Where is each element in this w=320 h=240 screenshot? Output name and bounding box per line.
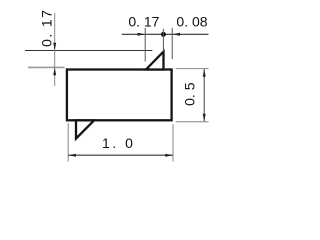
dimension line vertical right (0.5) <box>203 69 205 121</box>
extension line vertical bottom-right <box>172 124 174 162</box>
dimension line horizontal bottom (1.0) <box>68 154 173 156</box>
svg-text:0. 08: 0. 08 <box>176 13 207 29</box>
bottom dim arrow left <box>68 154 76 157</box>
right dim arrow down <box>203 114 206 122</box>
bottom dim arrow right <box>165 154 173 157</box>
extension line: right top horizontal <box>176 68 209 70</box>
extension line vertical C (body right edge) <box>171 28 173 59</box>
extension line vertical B (triangle apex) <box>162 29 164 52</box>
dimension line vertical left (0.17 height) <box>54 13 56 86</box>
svg-text:0. 5: 0. 5 <box>181 82 197 106</box>
top dim arrow right <box>138 33 146 36</box>
svg-text:1. 0: 1. 0 <box>102 135 135 151</box>
top-right triangle marker <box>146 52 164 70</box>
top dim dot terminator <box>161 32 166 37</box>
extension line vertical bottom-left <box>67 123 69 162</box>
right dim arrow up <box>203 69 206 77</box>
extension line: right bottom horizontal <box>176 121 209 123</box>
left dim arrow down <box>53 43 56 51</box>
extension line: apex level horizontal (left) <box>25 50 152 52</box>
bottom-left triangle marker <box>76 120 94 138</box>
body outline (1.0 x 0.5 chip) <box>67 70 172 121</box>
extension line vertical A (triangle base left) <box>144 28 146 62</box>
extension line: body-top level horizontal gray (left) <box>28 66 65 68</box>
svg-text:0. 17: 0. 17 <box>128 13 159 29</box>
left dim arrow up <box>53 68 56 76</box>
top dim arrow left <box>172 33 180 36</box>
dimension line horizontal top (0.17 / 0.08) <box>122 33 209 35</box>
svg-text:0. 17: 0. 17 <box>39 9 55 47</box>
